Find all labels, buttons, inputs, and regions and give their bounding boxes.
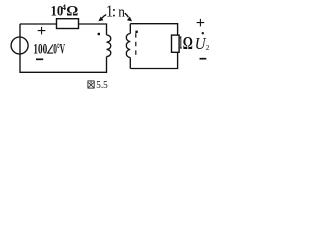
svg-text:100: 100 [33,40,47,57]
svg-text:2: 2 [206,43,210,52]
svg-text:0°V: 0°V [53,42,65,57]
svg-text:5.5: 5.5 [96,79,107,91]
svg-text:n: n [118,4,125,21]
svg-text::: : [112,4,116,21]
svg-text:Ω: Ω [183,34,193,54]
svg-text:1: 1 [179,33,182,54]
svg-text:Ω: Ω [66,4,78,20]
